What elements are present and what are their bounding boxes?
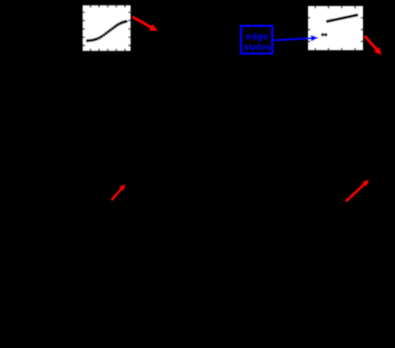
svg-text:states: states bbox=[244, 42, 271, 53]
svg-text:edge: edge bbox=[246, 31, 268, 42]
